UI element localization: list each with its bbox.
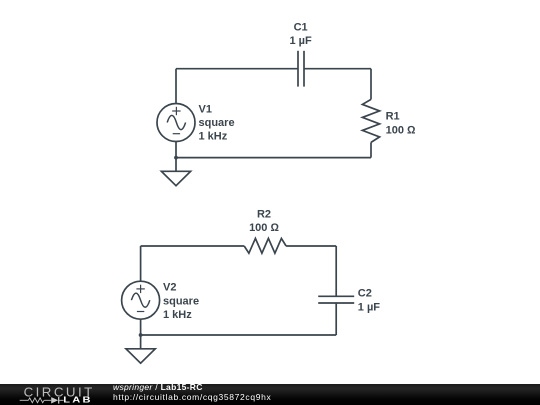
svg-text:1 µF: 1 µF (358, 302, 381, 314)
footer bar (0, 384, 540, 405)
resistor R2 (244, 238, 286, 253)
wire top net 2: V2 to R2 (141, 245, 245, 247)
junction node 2: V2 minus / bottom net 2 / ground (139, 333, 143, 337)
svg-text:square: square (199, 117, 235, 129)
svg-text:LAB: LAB (63, 396, 93, 405)
logo wordmark LAB (63, 396, 93, 405)
logo schematic squiggle: wire + resistor + diode (20, 397, 64, 404)
svg-text:V1: V1 (199, 104, 212, 116)
svg-text:R1: R1 (386, 110, 400, 122)
wire left: top net down to V1 plus terminal (175, 69, 177, 104)
footer breadcrumb text (113, 382, 413, 403)
wire: R1 to bottom net (370, 142, 372, 157)
svg-text:100 Ω: 100 Ω (249, 222, 279, 234)
voltage source V2 body (122, 281, 160, 319)
svg-text:R2: R2 (257, 209, 271, 221)
wire: V2 minus terminal to bottom net 2 (140, 319, 142, 335)
wire top net: V1 to C1 left plate (176, 68, 298, 70)
wire left 2: top net down to V2 plus terminal (140, 246, 142, 281)
voltage source V1 body (157, 104, 195, 142)
capacitor C1 (298, 51, 304, 87)
V2 plus sign (136, 285, 144, 293)
logo diode triangle (51, 397, 58, 403)
CircuitLab logo (0, 384, 100, 405)
V1 sine wave (167, 115, 185, 129)
wire bottom net 2: V2 to C2 (141, 334, 337, 336)
wire right: top net down to R1 (370, 69, 372, 100)
wire bottom net: V1 to R1 (176, 157, 371, 159)
svg-text:1 µF: 1 µF (289, 35, 312, 47)
wire: junction 2 to ground G2 (140, 335, 142, 349)
junction node: V1 minus / bottom net / ground (174, 156, 178, 160)
V1 plus sign (172, 107, 180, 115)
svg-text:1 kHz: 1 kHz (163, 309, 192, 321)
ground G1 (161, 171, 190, 185)
svg-text:square: square (163, 295, 199, 307)
wire top net: C1 right plate to R1 (304, 68, 371, 70)
svg-text:100 Ω: 100 Ω (386, 124, 416, 136)
wire: C2 bottom plate to bottom net 2 (335, 303, 337, 335)
svg-text:1 kHz: 1 kHz (199, 131, 228, 143)
wire: V1 minus terminal to bottom net (175, 142, 177, 158)
V1 minus sign (173, 133, 180, 135)
svg-text:V2: V2 (163, 282, 176, 294)
wire top net 2: R2 to C2 (286, 245, 336, 247)
resistor R1 (362, 99, 379, 142)
capacitor C2 (318, 296, 354, 303)
V2 minus sign (137, 311, 144, 313)
svg-text:C1: C1 (294, 21, 308, 33)
ground G2 (126, 349, 155, 363)
wire: junction to ground G1 (175, 158, 177, 172)
V2 sine wave (131, 293, 149, 307)
wire right 2: top net down to C2 top plate (335, 246, 337, 296)
svg-text:C2: C2 (358, 288, 372, 300)
